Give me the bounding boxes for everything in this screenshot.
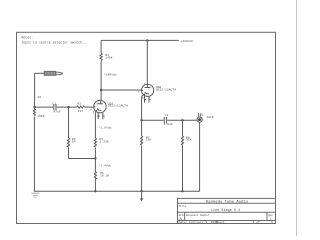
svg-text:10.2K: 10.2K — [100, 173, 109, 177]
svg-text:Line Stage # 1: Line Stage # 1 — [211, 208, 240, 213]
svg-text:1.33K: 1.33K — [99, 139, 108, 143]
wire R4 to U1A plate — [100, 62, 102, 101]
svg-text:February 3, 1999: February 3, 1999 — [189, 220, 218, 224]
wire J1 to corner — [35, 72, 45, 74]
wire U1B plate column — [146, 40, 148, 84]
svg-text:1: 1 — [271, 221, 273, 224]
svg-text:140K: 140K — [105, 55, 113, 59]
svg-text:Sheet: Sheet — [216, 220, 225, 224]
svg-text:R2: R2 — [77, 101, 81, 105]
wire C1 to junction — [57, 106, 77, 108]
title block box — [178, 198, 276, 223]
wire R2 to U1A grid — [85, 106, 94, 108]
resistor R2 — [77, 106, 85, 108]
svg-text:Rev: Rev — [268, 214, 273, 217]
title block row line 3 — [178, 220, 276, 222]
title block divider size/document — [184, 212, 186, 220]
svg-text:.47uF: .47uF — [51, 109, 60, 113]
svg-text:Size: Size — [179, 213, 186, 217]
tube U1B — [142, 84, 154, 102]
resistor R7 — [141, 136, 143, 145]
svg-text:Date:: Date: — [179, 221, 188, 224]
wire R5 to junction — [94, 148, 96, 172]
wire U1B grid — [101, 89, 141, 91]
title block row line 2 — [178, 211, 276, 213]
wire plate column U1A top — [100, 40, 102, 53]
wire R7 column lower — [141, 146, 143, 192]
wire R7 column upper — [141, 120, 143, 136]
resistor R8 — [181, 136, 183, 145]
svg-text:100K: 100K — [37, 114, 45, 118]
svg-text:6922/12AU7A: 6922/12AU7A — [108, 104, 129, 108]
svg-text:51K: 51K — [186, 138, 192, 142]
node rail R7 junction — [140, 190, 142, 192]
wire bias connector horizontal — [69, 158, 96, 160]
connector J2 RCA jack — [197, 113, 202, 122]
svg-text:*1.8Vdc: *1.8Vdc — [99, 126, 112, 130]
svg-text:1 of: 1 of — [253, 220, 260, 224]
svg-text:JACK: JACK — [206, 115, 214, 119]
node rail R8 junction — [181, 190, 183, 192]
wire R3 column — [68, 107, 70, 138]
svg-text:Title: Title — [179, 204, 187, 208]
node rail R6 junction — [94, 190, 96, 192]
wire R6 to rail — [94, 179, 96, 192]
svg-text:Document Number: Document Number — [186, 213, 210, 217]
page edge artifact line — [295, 0, 297, 236]
wire R8 column upper — [182, 120, 184, 136]
ground symbol bars left — [32, 193, 40, 197]
wire main line to C1 — [35, 106, 54, 108]
node grid branch junction — [67, 106, 69, 108]
capacitor C2 — [163, 117, 165, 124]
resistor R1 — [33, 107, 35, 191]
svg-text:R1: R1 — [38, 95, 42, 99]
wire U1B cathode down — [141, 97, 143, 121]
wire ground rail — [34, 190, 200, 192]
title block row line 1 — [178, 202, 276, 204]
node B+ / U1B plate junction — [146, 39, 148, 41]
node R8 tap junction — [181, 119, 183, 121]
wire J2 ground down — [199, 122, 201, 191]
wire B+ rail top — [101, 39, 179, 41]
wire U1A cathode down — [94, 113, 96, 138]
resistor R4 — [100, 53, 102, 62]
svg-text:C2: C2 — [165, 113, 169, 117]
resistor R3 — [67, 138, 69, 147]
ground symbol arrow — [140, 191, 144, 201]
node U1A plate / U1B grid junction — [100, 89, 102, 91]
svg-text:331: 331 — [77, 109, 83, 113]
node cathode / output junction — [140, 119, 142, 121]
capacitor C1 — [53, 104, 55, 110]
svg-text:+280Vdc: +280Vdc — [181, 39, 194, 43]
svg-text:*1.4Vdc: *1.4Vdc — [98, 164, 111, 168]
node cathode divider junction — [94, 157, 96, 159]
wire input drop — [34, 73, 36, 107]
svg-text:Kennedy Tube Audio: Kennedy Tube Audio — [206, 199, 249, 204]
wire output line right — [167, 119, 197, 121]
resistor R5 — [94, 138, 96, 147]
svg-text:C1: C1 — [52, 102, 56, 106]
wire R8 column lower — [182, 146, 184, 192]
svg-text:Input to source selector switc: Input to source selector switch... — [21, 40, 87, 44]
svg-text:21K: 21K — [146, 138, 152, 142]
svg-text:1M: 1M — [72, 139, 76, 143]
svg-text:*140Vdc: *140Vdc — [104, 73, 117, 77]
tube U1A — [94, 100, 106, 119]
svg-text:1.0uF: 1.0uF — [164, 122, 173, 126]
frame border — [17, 32, 276, 223]
node input junction — [33, 106, 35, 108]
svg-text:Notes:: Notes: — [21, 36, 33, 40]
wire output line left — [142, 119, 164, 121]
title block divider rev — [266, 212, 268, 220]
connector J1 RCA plug — [44, 71, 62, 75]
resistor R6 — [94, 172, 96, 179]
svg-text:6922/12AU7A: 6922/12AU7A — [156, 87, 177, 91]
wire R3 to bottom corner — [68, 148, 70, 159]
